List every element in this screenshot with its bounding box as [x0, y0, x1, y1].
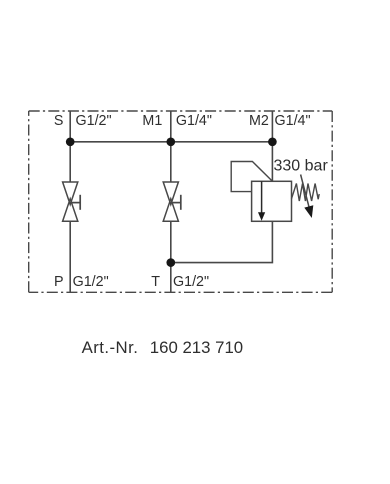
wire: relief valve outlet to T (L-shape) — [171, 221, 273, 262]
svg-text:G1/2": G1/2" — [73, 274, 109, 290]
wire: horizontal bus S-M1-M2 — [70, 141, 272, 143]
junction node M1 — [166, 137, 175, 146]
wire: port P vertical (lower segment) — [69, 221, 71, 292]
wire: port M1 vertical (upper segment) — [170, 111, 172, 182]
pilot line (from valve inlet, loop to left side of body) — [231, 162, 272, 192]
pressure relief valve body (square) — [252, 181, 292, 221]
svg-text:G1/4": G1/4" — [176, 113, 212, 129]
svg-text:G1/2": G1/2" — [173, 274, 209, 290]
svg-text:P: P — [54, 274, 64, 290]
svg-text:M1: M1 — [142, 113, 162, 129]
svg-text:330 bar: 330 bar — [274, 158, 329, 175]
spring (adjustable, right of body) — [292, 184, 320, 202]
shut-off valve V1 (S-P line) — [63, 182, 81, 221]
svg-text:G1/2": G1/2" — [76, 113, 112, 129]
junction node M2 — [268, 137, 277, 146]
wire: port T vertical (lower segment) — [170, 221, 172, 292]
svg-text:M2: M2 — [249, 113, 269, 129]
svg-text:T: T — [151, 274, 160, 290]
wire: port M2 vertical — [271, 111, 273, 181]
shut-off valve V2 (M1-T line) — [163, 182, 181, 221]
wire: port S vertical (upper segment) — [69, 111, 71, 182]
svg-text:S: S — [54, 113, 64, 129]
junction node T — [166, 258, 175, 267]
svg-text:G1/4": G1/4" — [275, 113, 311, 129]
relief valve flow arrow (inside square) — [261, 181, 263, 213]
junction node S — [66, 137, 75, 146]
svg-text:160 213 710: 160 213 710 — [150, 338, 243, 357]
svg-text:Art.-Nr.: Art.-Nr. — [82, 338, 139, 357]
spring adjustment arrow — [301, 175, 309, 207]
enclosure (manifold boundary, dash-dot chain line) — [29, 111, 333, 292]
